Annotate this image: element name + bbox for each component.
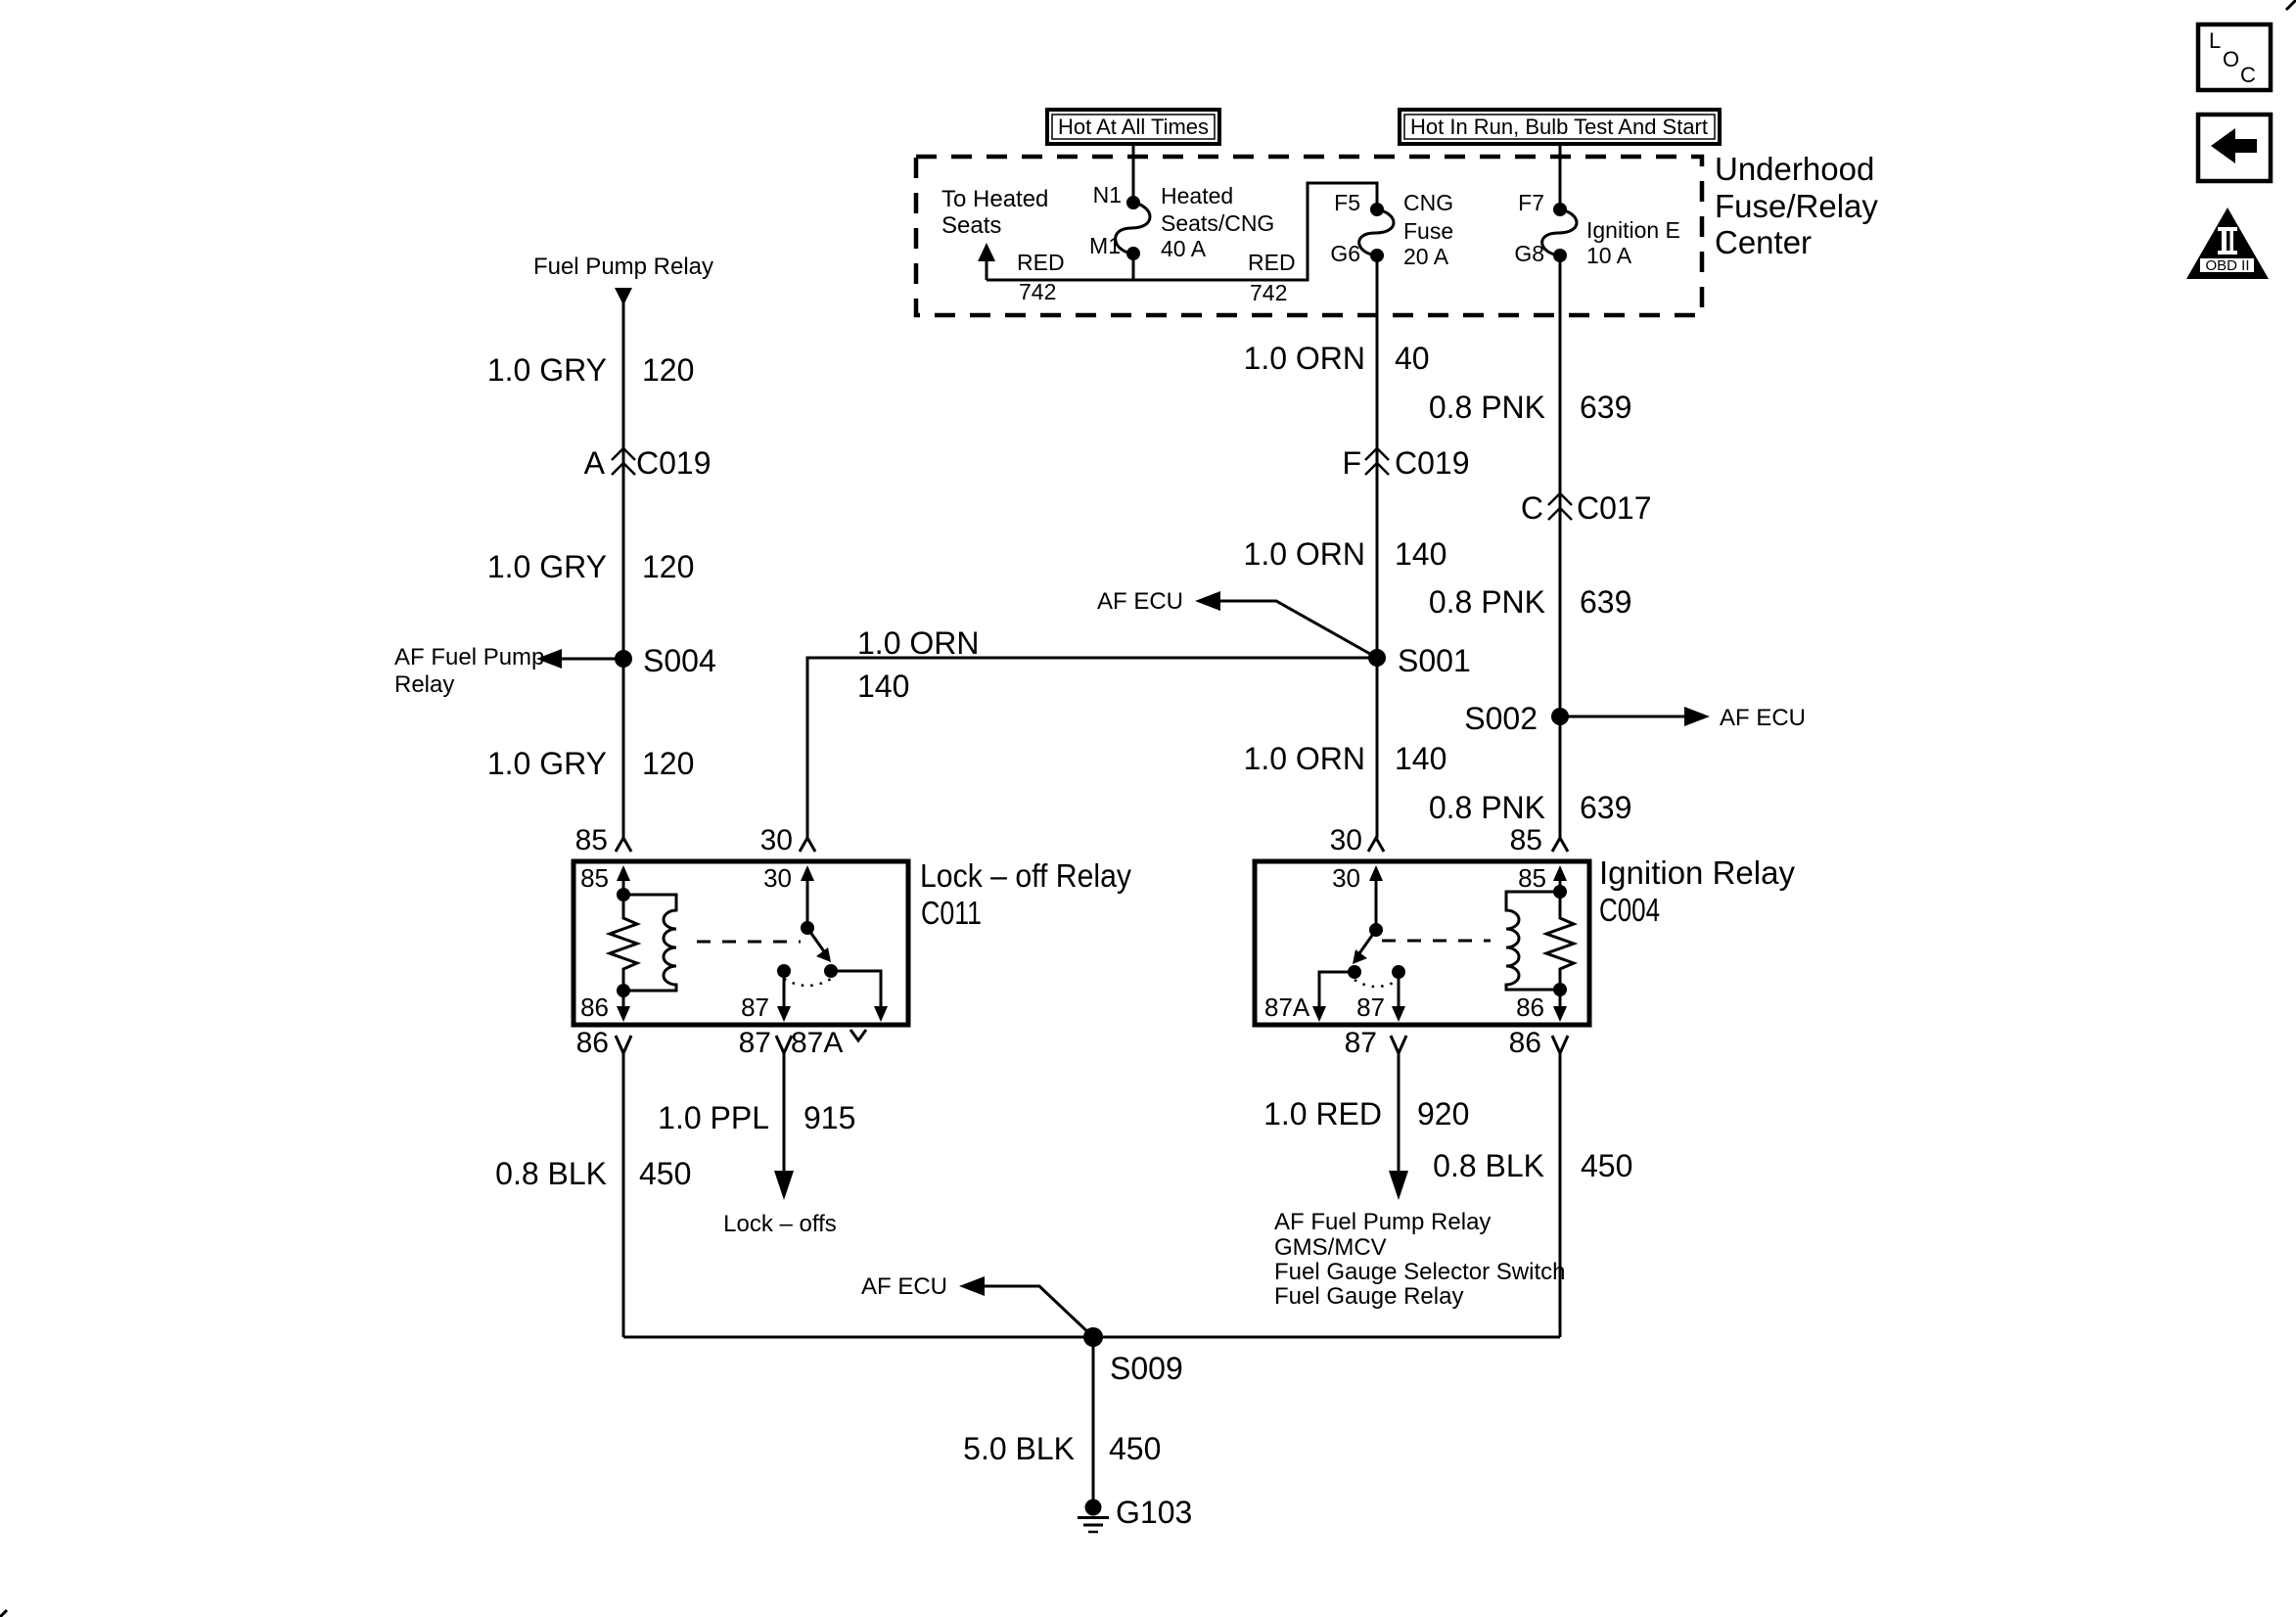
svg-text:30: 30: [763, 863, 792, 893]
svg-text:Seats/CNG: Seats/CNG: [1161, 210, 1274, 236]
label 1.0 RED 920: [1263, 1096, 1469, 1132]
svg-text:1.0 GRY: 1.0 GRY: [487, 352, 607, 388]
svg-text:1.0 PPL: 1.0 PPL: [658, 1100, 769, 1135]
svg-text:85: 85: [1518, 863, 1546, 893]
svg-text:Center: Center: [1715, 224, 1812, 260]
svg-text:RED: RED: [1017, 250, 1065, 275]
lock-off pin 86 internal arrow: [580, 991, 630, 1022]
svg-text:1.0 ORN: 1.0 ORN: [857, 625, 979, 661]
svg-text:915: 915: [804, 1100, 855, 1135]
label 1.0 GRY 120 (lower): [487, 746, 695, 781]
svg-text:Ignition E: Ignition E: [1586, 217, 1680, 243]
svg-text:S009: S009: [1110, 1351, 1183, 1386]
svg-text:1.0 RED: 1.0 RED: [1263, 1096, 1382, 1132]
label AF ECU (S001): [1097, 588, 1183, 615]
svg-text:85: 85: [580, 863, 609, 893]
icon back-arrow box: [2198, 115, 2271, 181]
pin 30 connector above ignition relay: [1330, 824, 1384, 856]
svg-text:40 A: 40 A: [1161, 236, 1207, 261]
svg-text:86: 86: [580, 993, 609, 1022]
svg-text:F7: F7: [1518, 190, 1544, 215]
svg-text:0.8 PNK: 0.8 PNK: [1429, 390, 1545, 425]
label 0.8 PNK 639 (upper): [1429, 390, 1632, 425]
lock-off pin 85 internal arrow: [580, 863, 630, 895]
svg-text:A: A: [584, 445, 606, 481]
arrow to AF ECU (from S001): [1195, 591, 1377, 658]
label S002: [1464, 701, 1538, 736]
label CNG Fuse 20 A: [1403, 190, 1453, 269]
fuse Ignition E 10A (terminals F7-G8): [1542, 203, 1577, 262]
wire ORN branch (S001 to lock-off pin 30): [807, 658, 1377, 838]
label Ignition E 10 A: [1586, 217, 1680, 268]
icon LOC box: [2198, 24, 2271, 90]
label G6: [1330, 241, 1360, 266]
svg-text:1.0 GRY: 1.0 GRY: [487, 549, 607, 584]
label 1.0 ORN 140 (lower): [1244, 741, 1447, 776]
pin 85 connector above ignition relay: [1510, 824, 1568, 856]
label AF Fuel Pump Relay: [394, 644, 544, 698]
label 1.0 ORN 140 (upper): [1244, 536, 1447, 572]
label To Heated Seats: [941, 186, 1048, 239]
wire bottom run (lock-off 86 to ignition 86): [623, 1336, 1560, 1339]
header box Hot In Run, Bulb Test And Start: [1400, 110, 1720, 144]
svg-text:F: F: [1342, 445, 1361, 481]
pin 85 connector above lock-off relay: [575, 824, 631, 856]
wire BLK (ignition 86 down to bottom run): [1559, 1053, 1562, 1337]
label Heated Seats/CNG 40 A: [1161, 183, 1274, 261]
splice S009: [1083, 1327, 1103, 1347]
connector C019 pin F symbol: [1365, 448, 1389, 475]
svg-text:GMS/MCV: GMS/MCV: [1274, 1234, 1387, 1261]
wire from Hot At All Times header to fuse N1: [1132, 144, 1135, 200]
svg-text:G103: G103: [1116, 1495, 1192, 1530]
svg-text:Underhood: Underhood: [1715, 151, 1874, 187]
label 0.8 BLK 450 (left): [495, 1156, 691, 1191]
pin 86 connector below lock-off: [576, 1027, 631, 1059]
svg-text:639: 639: [1580, 584, 1631, 620]
lock-off switch arm: [801, 921, 831, 962]
svg-text:87: 87: [1345, 1027, 1377, 1059]
svg-text:30: 30: [760, 824, 793, 856]
lock-off relay coil: [623, 895, 676, 991]
svg-text:1.0 ORN: 1.0 ORN: [1244, 341, 1365, 376]
header box Hot At All Times: [1047, 110, 1219, 144]
svg-text:Fuel Gauge Selector Switch: Fuel Gauge Selector Switch: [1274, 1259, 1565, 1285]
label M1: [1089, 233, 1121, 258]
label Underhood Fuse/Relay Center: [1715, 151, 1878, 260]
ignition pin 85 internal arrow: [1518, 863, 1567, 893]
pin 30 connector above lock-off relay: [760, 824, 815, 856]
label 1.0 GRY 120 (middle): [487, 549, 695, 584]
svg-text:1.0 ORN: 1.0 ORN: [1244, 536, 1365, 572]
svg-text:C: C: [1521, 490, 1543, 526]
label G8: [1514, 241, 1544, 266]
svg-text:C: C: [2240, 63, 2256, 87]
svg-text:87A: 87A: [791, 1027, 843, 1059]
icon OBD II triangle: [2186, 208, 2269, 279]
svg-text:Relay: Relay: [394, 671, 454, 698]
svg-text:To Heated: To Heated: [941, 186, 1048, 212]
svg-text:G8: G8: [1514, 241, 1544, 266]
lock-off pin 87A internal path: [831, 971, 888, 1022]
svg-text:Hot At All Times: Hot At All Times: [1058, 115, 1209, 139]
label S001: [1398, 643, 1471, 678]
svg-text:0.8 BLK: 0.8 BLK: [1433, 1148, 1544, 1183]
svg-text:C017: C017: [1577, 490, 1652, 526]
svg-text:Fuse/Relay: Fuse/Relay: [1715, 188, 1878, 224]
label 0.8 PNK 639 (middle): [1429, 584, 1632, 620]
svg-text:Heated: Heated: [1161, 183, 1233, 208]
connector C017 pin C symbol: [1548, 493, 1572, 520]
label G103: [1116, 1495, 1192, 1530]
svg-text:87: 87: [1356, 993, 1385, 1022]
svg-text:140: 140: [1395, 741, 1446, 776]
svg-text:AF ECU: AF ECU: [861, 1273, 947, 1300]
lock-off relay resistor: [610, 895, 637, 991]
svg-text:742: 742: [1019, 279, 1056, 304]
svg-text:86: 86: [1509, 1027, 1541, 1059]
lock-off linkage dashed line: [697, 941, 801, 944]
svg-text:N1: N1: [1093, 182, 1122, 208]
svg-text:920: 920: [1417, 1096, 1469, 1132]
svg-text:Fuel Gauge Relay: Fuel Gauge Relay: [1274, 1283, 1463, 1310]
svg-text:OBD II: OBD II: [2205, 257, 2249, 274]
arrow to AF ECU (from S009): [959, 1276, 1093, 1337]
corner mark bottom-left: [0, 1610, 7, 1617]
pin 87A connector below lock-off: [791, 1027, 866, 1059]
arrow to AF Fuel Pump Relay: [536, 649, 623, 669]
label 1.0 ORN 140 (branch): [857, 625, 979, 704]
svg-text:G6: G6: [1330, 241, 1360, 266]
pin 86 connector below ignition: [1509, 1027, 1568, 1059]
svg-text:87A: 87A: [1264, 993, 1310, 1022]
svg-text:20 A: 20 A: [1403, 244, 1449, 269]
wire BLK (S009 down to ground): [1092, 1337, 1095, 1501]
label C C017: [1521, 490, 1652, 526]
svg-text:CNG: CNG: [1403, 190, 1453, 215]
svg-text:120: 120: [642, 352, 694, 388]
svg-text:AF ECU: AF ECU: [1720, 705, 1806, 731]
svg-text:85: 85: [1510, 824, 1542, 856]
lock-off pin 87 internal arrow: [741, 971, 791, 1022]
label Fuel Pump Relay: [533, 254, 713, 280]
label Ignition Relay C004: [1599, 855, 1795, 928]
svg-text:Ignition Relay: Ignition Relay: [1599, 855, 1795, 891]
label RED 742 (right): [1248, 250, 1296, 305]
ignition pin 87 internal arrow: [1356, 972, 1405, 1022]
svg-text:639: 639: [1580, 790, 1631, 825]
relay box Ignition Relay C004: [1255, 861, 1589, 1025]
label AF ECU (S002): [1720, 705, 1806, 731]
label Lock-off Relay C011: [920, 857, 1131, 931]
wire GRY (Fuel Pump Relay down to pin 85): [622, 301, 625, 838]
ignition pin 30 internal arrow: [1332, 863, 1383, 930]
svg-text:40: 40: [1395, 341, 1430, 376]
label S004: [643, 643, 716, 678]
relay box Lock-off Relay C011: [574, 861, 908, 1025]
label 1.0 PPL 915: [658, 1100, 855, 1135]
svg-text:85: 85: [575, 824, 608, 856]
underhood fuse/relay center dashed box: [916, 157, 1702, 315]
ignition switch arm: [1353, 923, 1383, 964]
splice S004: [615, 650, 632, 668]
svg-text:742: 742: [1250, 280, 1287, 305]
label Lock-offs: [723, 1211, 837, 1237]
svg-text:450: 450: [639, 1156, 691, 1191]
label AF ECU (S009): [861, 1273, 947, 1300]
wire RED 742 (M1 to F5 feed): [987, 183, 1377, 280]
svg-text:AF Fuel Pump Relay: AF Fuel Pump Relay: [1274, 1209, 1491, 1235]
svg-text:M1: M1: [1089, 233, 1121, 258]
connector C019 pin A symbol: [612, 448, 635, 475]
svg-text:0.8 PNK: 0.8 PNK: [1429, 584, 1545, 620]
svg-text:5.0 BLK: 5.0 BLK: [963, 1431, 1075, 1466]
ignition relay node dots: [1553, 885, 1567, 996]
ignition relay coil: [1506, 892, 1560, 990]
svg-text:C004: C004: [1599, 892, 1660, 928]
svg-text:RED: RED: [1248, 250, 1296, 275]
label 0.8 BLK 450 (right): [1433, 1148, 1632, 1183]
label RED 742 (left): [1017, 250, 1065, 304]
label S009: [1110, 1351, 1183, 1386]
svg-text:AF Fuel Pump: AF Fuel Pump: [394, 644, 544, 670]
svg-text:450: 450: [1109, 1431, 1161, 1466]
ground G103: [1078, 1500, 1109, 1533]
label 1.0 GRY 120 (upper): [487, 352, 695, 388]
svg-text:87: 87: [741, 993, 769, 1022]
label AF Fuel Pump Relay / GMS/MCV / Fuel Gauge list: [1274, 1209, 1565, 1310]
svg-text:O: O: [2223, 47, 2239, 71]
svg-text:30: 30: [1332, 863, 1360, 893]
svg-text:639: 639: [1580, 390, 1631, 425]
pin 87 connector below ignition: [1345, 1027, 1406, 1059]
ignition switch contacts and dotted arc: [1348, 965, 1405, 987]
arrow to AF ECU (from S002): [1560, 707, 1710, 726]
svg-text:1.0 ORN: 1.0 ORN: [1244, 741, 1365, 776]
label 1.0 ORN 40: [1244, 341, 1430, 376]
svg-text:Seats: Seats: [941, 212, 1001, 239]
svg-text:Fuse: Fuse: [1403, 218, 1453, 244]
ignition linkage dashed line: [1382, 940, 1491, 943]
svg-text:120: 120: [642, 549, 694, 584]
arrow to heated seats: [978, 243, 995, 280]
fuse CNG Fuse 20A (terminals F5-G6): [1359, 203, 1394, 262]
splice S002: [1551, 708, 1569, 725]
lock-off relay node dots: [617, 888, 630, 997]
wire BLK (lock-off 86 down to bottom run): [622, 1053, 625, 1337]
svg-text:140: 140: [1395, 536, 1446, 572]
label N1: [1093, 182, 1122, 208]
svg-text:140: 140: [857, 669, 909, 704]
pin 87 connector below lock-off: [739, 1027, 792, 1059]
svg-text:F5: F5: [1334, 190, 1360, 215]
ignition pin 86 internal arrow: [1516, 990, 1567, 1022]
svg-text:86: 86: [576, 1027, 609, 1059]
svg-text:10 A: 10 A: [1586, 243, 1632, 268]
label 5.0 BLK 450: [963, 1431, 1161, 1466]
corner mark top-right: [2286, 0, 2296, 10]
svg-text:AF ECU: AF ECU: [1097, 588, 1183, 615]
svg-text:Hot In Run, Bulb Test And Star: Hot In Run, Bulb Test And Start: [1410, 115, 1708, 139]
lock-off pin 30 internal arrow: [763, 863, 814, 928]
label 0.8 PNK 639 (lower): [1429, 790, 1632, 825]
svg-text:C011: C011: [921, 895, 982, 931]
label F7: [1518, 190, 1544, 215]
svg-text:0.8 PNK: 0.8 PNK: [1429, 790, 1545, 825]
ignition pin 87A internal path: [1264, 972, 1355, 1022]
svg-text:S002: S002: [1464, 701, 1538, 736]
svg-text:Lock – offs: Lock – offs: [723, 1211, 837, 1237]
label F5: [1334, 190, 1360, 215]
label A C019: [584, 445, 712, 481]
svg-text:Fuel Pump Relay: Fuel Pump Relay: [533, 254, 713, 280]
svg-text:C019: C019: [636, 445, 712, 481]
svg-text:87: 87: [739, 1027, 771, 1059]
wire PPL (lock-off 87 down to Lock-offs): [774, 1053, 794, 1200]
wire RED (ignition 87 down): [1389, 1053, 1408, 1200]
svg-text:1.0 GRY: 1.0 GRY: [487, 746, 607, 781]
ignition relay resistor: [1546, 892, 1574, 990]
svg-text:S001: S001: [1398, 643, 1471, 678]
svg-text:86: 86: [1516, 993, 1544, 1022]
wire ORN (G6 down to ignition relay pin 30): [1376, 255, 1379, 838]
wire from Hot In Run header to fuse F7: [1559, 144, 1562, 207]
svg-text:450: 450: [1581, 1148, 1632, 1183]
svg-text:C019: C019: [1395, 445, 1470, 481]
svg-text:Lock – off Relay: Lock – off Relay: [920, 857, 1131, 894]
wire PNK (G8 down to ignition relay pin 85): [1559, 255, 1562, 838]
arrow from Fuel Pump Relay: [615, 288, 632, 305]
svg-text:30: 30: [1330, 824, 1362, 856]
svg-text:S004: S004: [643, 643, 716, 678]
fuse Heated Seats/CNG 40A (terminals N1-M1): [1116, 196, 1150, 260]
lock-off switch contacts and dotted arc: [777, 964, 838, 986]
svg-text:120: 120: [642, 746, 694, 781]
label F C019: [1342, 445, 1469, 481]
svg-text:0.8 BLK: 0.8 BLK: [495, 1156, 607, 1191]
svg-text:L: L: [2209, 28, 2221, 53]
splice S001: [1368, 649, 1386, 667]
